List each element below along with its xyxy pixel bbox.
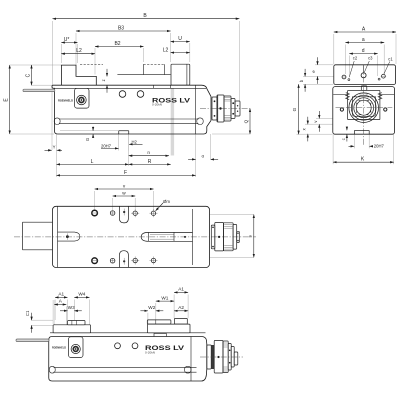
svg-text:0-20kN: 0-20kN xyxy=(152,104,162,107)
clamping screw bottom xyxy=(69,337,84,358)
side view xyxy=(292,26,396,164)
svg-text:c2: c2 xyxy=(353,56,358,61)
svg-text:o: o xyxy=(201,154,204,159)
svg-text:A1: A1 xyxy=(58,292,64,297)
spindle bore xyxy=(349,93,379,123)
wiper spring right xyxy=(378,93,381,100)
dim C xyxy=(32,84,53,86)
dim A xyxy=(334,31,396,33)
svg-text:W1: W1 xyxy=(161,295,168,300)
dim L2 right xyxy=(171,52,190,54)
centerline knob bottom xyxy=(200,356,243,358)
hole xyxy=(110,211,115,216)
svg-text:Øm: Øm xyxy=(163,199,170,204)
slot top xyxy=(119,206,128,223)
T-grooves front xyxy=(59,118,199,120)
extension lines top view xyxy=(94,191,96,210)
dim K xyxy=(333,161,394,163)
left rod bottom view xyxy=(16,339,49,342)
workpiece phantom xyxy=(117,74,170,76)
svg-text:x: x xyxy=(301,128,306,130)
hole xyxy=(119,91,126,98)
svg-text:B2: B2 xyxy=(114,41,120,47)
dim L2 left xyxy=(61,53,95,55)
dim U* xyxy=(61,42,77,44)
dim W2 xyxy=(140,310,148,312)
dim z xyxy=(106,69,108,77)
spindle rod top view xyxy=(149,232,193,241)
claw left lower xyxy=(53,325,91,333)
dim W3 xyxy=(60,310,68,312)
front view xyxy=(4,13,251,177)
svg-text:U*: U* xyxy=(64,37,70,43)
svg-text:ROEMHELD: ROEMHELD xyxy=(52,346,67,350)
dim v side xyxy=(318,111,320,119)
claw right upper flat xyxy=(147,320,171,324)
dim U xyxy=(171,41,190,43)
svg-text:20H7: 20H7 xyxy=(374,144,385,149)
dim A2 xyxy=(174,310,188,312)
dim Q xyxy=(249,109,251,135)
side screw left xyxy=(340,108,343,111)
dowel hole xyxy=(133,258,137,262)
key slot xyxy=(58,232,80,241)
label 20H7 side xyxy=(349,145,355,147)
counterbored hole xyxy=(92,258,98,264)
left rod front xyxy=(23,89,55,91)
hole xyxy=(115,343,121,349)
bottom keyway side xyxy=(354,130,369,132)
movable jaw right xyxy=(171,64,190,85)
svg-text:A1: A1 xyxy=(178,287,184,292)
vise body bottom view xyxy=(49,337,207,382)
bottom view xyxy=(16,287,243,381)
dim G side xyxy=(298,84,300,134)
svg-text:c1: c1 xyxy=(388,56,393,61)
dim A1 right xyxy=(174,291,188,293)
dim E xyxy=(10,64,61,66)
keyway 20H7 xyxy=(119,130,129,132)
svg-text:c3: c3 xyxy=(368,56,373,61)
dim a xyxy=(345,42,384,44)
clamping screw xyxy=(75,88,89,108)
dim B3 xyxy=(76,30,171,32)
centerlines side xyxy=(336,107,393,109)
svg-text:C: C xyxy=(25,73,31,77)
dowel hole with leader xyxy=(151,211,155,215)
dowel hole xyxy=(151,258,155,262)
side screw right xyxy=(384,108,387,111)
dim W1 xyxy=(156,300,174,302)
body top view xyxy=(53,206,210,267)
grooves bottom view xyxy=(54,366,197,368)
dim b xyxy=(304,69,306,77)
hole xyxy=(132,343,138,349)
extension lines front view xyxy=(52,21,54,85)
svg-text:W4: W4 xyxy=(78,292,85,297)
svg-text:B3: B3 xyxy=(118,25,124,31)
plate holes xyxy=(342,75,346,79)
svg-text:G: G xyxy=(292,107,297,111)
dim x side xyxy=(307,117,309,125)
centerline knob front xyxy=(200,108,250,110)
centerline top view xyxy=(14,236,256,238)
svg-text:0-20kN: 0-20kN xyxy=(145,352,155,355)
svg-text:a: a xyxy=(362,37,365,43)
body side xyxy=(333,87,395,135)
dim R xyxy=(129,163,171,165)
svg-text:A2: A2 xyxy=(178,305,184,310)
svg-text:F: F xyxy=(124,170,127,176)
dim n xyxy=(129,155,169,157)
svg-text:20H7: 20H7 xyxy=(101,144,112,149)
svg-text:L: L xyxy=(91,159,94,165)
dowel hole xyxy=(133,211,137,215)
claw right lower xyxy=(148,324,191,333)
label 20H7 xyxy=(101,147,118,149)
extension lines bottom view xyxy=(54,300,56,321)
hole xyxy=(137,91,144,98)
svg-text:L2: L2 xyxy=(76,48,82,54)
fixed jaw left xyxy=(61,65,96,85)
extension lines side view xyxy=(333,34,335,64)
vise body front xyxy=(52,85,211,134)
dim o xyxy=(188,158,196,160)
dim c side xyxy=(346,127,348,130)
svg-text:w: w xyxy=(122,190,126,195)
dim F xyxy=(57,174,196,176)
dim w top xyxy=(113,195,136,197)
svg-text:L2: L2 xyxy=(163,47,169,53)
svg-text:H2: H2 xyxy=(132,140,138,145)
micrometer knob front xyxy=(212,97,217,120)
dim A left xyxy=(54,304,66,306)
knob top view xyxy=(211,225,215,249)
svg-text:C1: C1 xyxy=(25,310,30,316)
svg-text:R: R xyxy=(148,159,152,165)
dim B xyxy=(53,18,240,20)
claw right upper tall xyxy=(174,318,187,324)
micrometer knob bottom view xyxy=(207,345,211,369)
svg-text:W3: W3 xyxy=(68,305,75,310)
dim W4 xyxy=(74,296,89,298)
shaft left top view xyxy=(23,221,53,223)
counterbored hole xyxy=(92,210,98,216)
svg-text:Q: Q xyxy=(244,119,249,123)
dim e xyxy=(317,57,319,65)
svg-text:Y: Y xyxy=(53,145,56,150)
top view xyxy=(14,183,256,267)
slot bottom xyxy=(119,251,128,268)
svg-text:W2: W2 xyxy=(148,305,155,310)
claw left upper xyxy=(68,321,86,325)
label H2 xyxy=(129,143,142,145)
dim d xyxy=(349,53,377,55)
dim Y xyxy=(45,149,52,151)
dim G xyxy=(92,127,94,131)
dim v top xyxy=(95,188,154,190)
svg-text:U: U xyxy=(178,36,182,42)
top plate side xyxy=(334,65,396,85)
svg-text:d: d xyxy=(362,48,365,54)
dim s top xyxy=(253,215,255,258)
svg-text:ROEMHELD: ROEMHELD xyxy=(58,98,74,102)
svg-text:n: n xyxy=(147,150,150,155)
hole xyxy=(110,258,115,263)
tab notch xyxy=(154,333,166,336)
wiper spring left xyxy=(346,93,349,100)
svg-text:z: z xyxy=(101,79,106,81)
dim A1 left xyxy=(55,296,67,298)
svg-text:c: c xyxy=(341,138,346,140)
dim L xyxy=(57,163,129,165)
dim B2 xyxy=(95,46,144,48)
saddle/slide xyxy=(348,90,362,92)
dim C1 xyxy=(31,313,33,321)
